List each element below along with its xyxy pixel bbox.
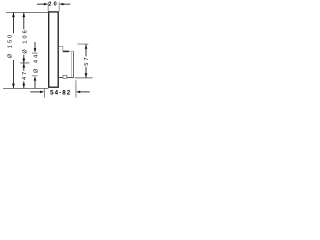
svg-text:Ø 150: Ø 150 xyxy=(8,33,14,58)
dim 47: top arrow xyxy=(22,63,25,67)
bottom dim 54-82: right extension line xyxy=(75,80,77,97)
dim D150: bottom extension line xyxy=(3,87,48,89)
dim D44: upper tick xyxy=(32,52,38,54)
dim D150: line lower seg xyxy=(12,60,14,88)
svg-text:Ø 44: Ø 44 xyxy=(33,53,39,73)
knob cap inner line xyxy=(71,51,73,77)
dim 57: bottom extension line xyxy=(75,77,93,79)
dim D44: lower arrow (points up) xyxy=(34,76,37,80)
dim 47: line seg C xyxy=(23,63,25,71)
dim D150: bottom arrow xyxy=(12,84,15,88)
top dim 20: right extension line xyxy=(58,2,60,11)
knob bottom button detail xyxy=(63,75,67,78)
dim D44: lower line xyxy=(34,80,36,88)
bottom dim 54-82: left leader xyxy=(30,91,41,93)
dim D106: bottom arrow xyxy=(22,59,25,63)
dim D44: lower tick xyxy=(32,75,38,77)
shared tick at 106/47 junction xyxy=(20,62,29,64)
top dim 20: left leader xyxy=(37,3,45,5)
svg-text:54-82: 54-82 xyxy=(50,90,71,97)
dim D106: line seg B xyxy=(23,55,25,63)
dim 57: line upper seg xyxy=(85,44,87,56)
svg-text:20: 20 xyxy=(48,1,59,7)
top dim 20: left arrow xyxy=(44,3,48,6)
bottom dim 54-82: right leader xyxy=(80,91,90,93)
dim 57: line lower seg xyxy=(85,67,87,78)
svg-text:47: 47 xyxy=(22,70,28,80)
bottom dim 54-82: left extension line xyxy=(43,89,45,98)
bottom dim 54-82: left arrow xyxy=(40,91,44,94)
svg-text:Ø 106: Ø 106 xyxy=(22,28,28,53)
dim D150: line upper seg xyxy=(12,13,14,34)
top dim 20: right leader xyxy=(63,3,71,5)
handle knob head top (thick inner part) xyxy=(63,50,69,52)
dim 57: top arrow xyxy=(85,44,88,48)
svg-text:57: 57 xyxy=(84,55,90,65)
dim 47: bottom arrow xyxy=(22,84,25,88)
dim 57: bottom arrow xyxy=(85,73,88,77)
dim D44: upper line xyxy=(34,42,36,50)
plate side view (escutcheon body) xyxy=(49,12,59,87)
handle knob neck top xyxy=(59,46,63,51)
dim D106: line seg A xyxy=(23,13,25,30)
top dim 20: right arrow xyxy=(59,3,63,6)
top dim 20: left extension line xyxy=(47,2,49,11)
dim D150: top arrow xyxy=(12,13,15,17)
dim 57: top extension line xyxy=(78,43,89,45)
dim 47: line seg D xyxy=(23,81,25,88)
handle knob head top (outer part) xyxy=(69,50,73,52)
dim D44: upper arrow (points down) xyxy=(34,48,37,52)
dim D106: top arrow xyxy=(22,13,25,17)
dim D150: top extension line xyxy=(6,11,49,13)
bottom dim 54-82: right arrow xyxy=(76,91,80,94)
